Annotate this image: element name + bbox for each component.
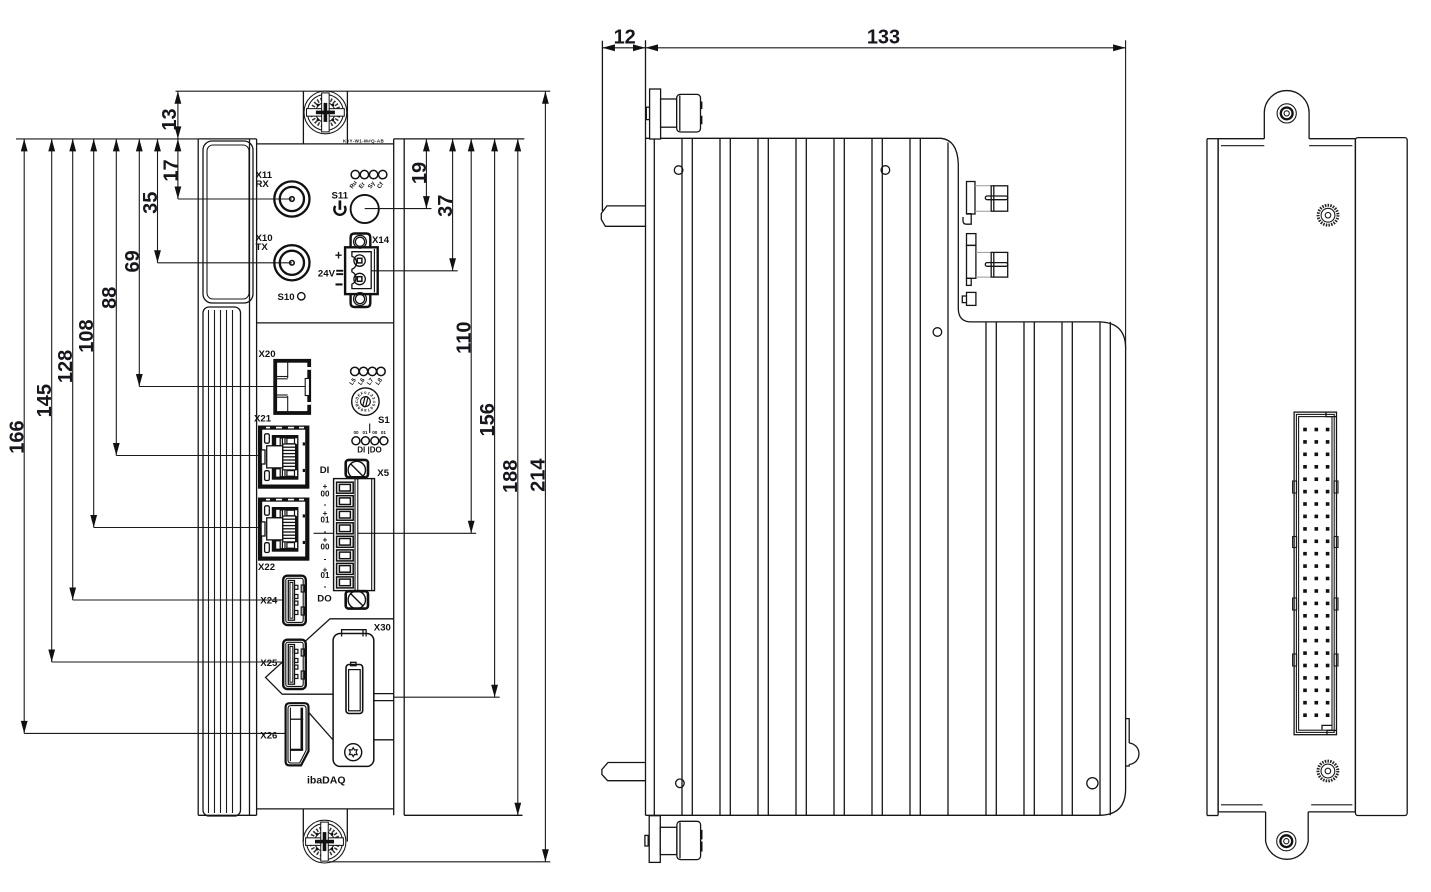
svg-text:-: - xyxy=(324,554,327,563)
svg-text:88: 88 xyxy=(99,287,121,309)
svg-text:X20: X20 xyxy=(259,349,276,360)
svg-text:00: 00 xyxy=(372,430,378,435)
svg-text:69: 69 xyxy=(122,250,144,272)
svg-text:00: 00 xyxy=(353,430,359,435)
svg-text:01: 01 xyxy=(321,571,330,580)
svg-text:17: 17 xyxy=(161,159,183,181)
svg-text:214: 214 xyxy=(528,458,550,492)
svg-text:166: 166 xyxy=(7,420,29,453)
svg-text:S10: S10 xyxy=(278,292,295,303)
svg-text:X26: X26 xyxy=(260,730,277,741)
svg-text:DO: DO xyxy=(317,593,332,604)
svg-text:X14: X14 xyxy=(372,235,390,246)
svg-text:X25: X25 xyxy=(260,658,278,669)
svg-text:X30: X30 xyxy=(374,622,391,633)
svg-text:DI: DI xyxy=(320,465,330,476)
svg-text:00: 00 xyxy=(321,490,330,499)
svg-text:133: 133 xyxy=(867,27,900,49)
svg-text:00: 00 xyxy=(321,543,330,552)
svg-text:37: 37 xyxy=(435,195,457,217)
svg-text:19: 19 xyxy=(409,162,431,184)
svg-text:ibaDAQ: ibaDAQ xyxy=(307,775,346,787)
svg-text:24V: 24V xyxy=(318,268,336,279)
svg-text:110: 110 xyxy=(453,322,475,354)
svg-text:01: 01 xyxy=(381,430,387,435)
svg-text:145: 145 xyxy=(34,384,56,417)
svg-text:188: 188 xyxy=(500,460,522,493)
svg-text:01: 01 xyxy=(362,430,368,435)
svg-text:156: 156 xyxy=(477,403,499,436)
svg-text:S11: S11 xyxy=(332,191,349,202)
svg-text:128: 128 xyxy=(55,350,77,383)
svg-text:+: + xyxy=(335,249,342,263)
svg-text:108: 108 xyxy=(76,319,98,352)
svg-text:X24: X24 xyxy=(260,596,278,607)
svg-text:RX: RX xyxy=(256,179,270,190)
svg-text:DI |DO: DI |DO xyxy=(357,446,381,455)
svg-text:-: - xyxy=(324,582,327,591)
svg-text:X5: X5 xyxy=(377,468,389,479)
svg-text:13: 13 xyxy=(159,108,181,130)
svg-text:-: - xyxy=(324,500,327,509)
svg-text:TX: TX xyxy=(256,242,269,253)
svg-text:X22: X22 xyxy=(258,562,275,573)
svg-text:12: 12 xyxy=(614,27,636,49)
svg-text:X21: X21 xyxy=(254,414,272,425)
svg-text:01: 01 xyxy=(321,516,330,525)
svg-text:S1: S1 xyxy=(378,415,390,426)
svg-text:K#Y-W1-M#Q-AB: K#Y-W1-M#Q-AB xyxy=(343,139,385,144)
svg-text:35: 35 xyxy=(140,192,162,214)
